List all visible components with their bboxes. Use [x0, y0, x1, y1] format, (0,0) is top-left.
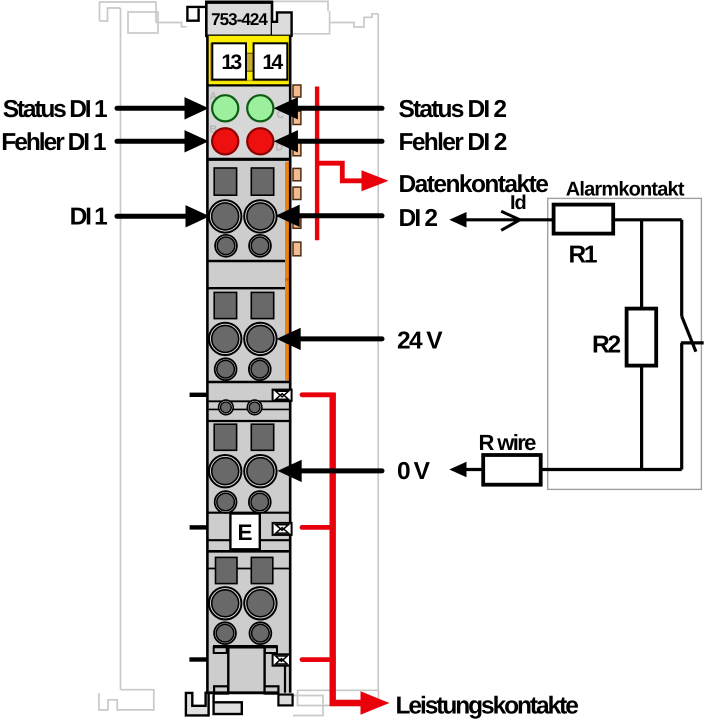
- ghost right module edge: [377, 14, 379, 691]
- terminal group 2 (24V): [209, 292, 277, 380]
- arrow Status DI 2: [298, 106, 382, 111]
- svg-text:Fehler DI 1: Fehler DI 1: [1, 129, 106, 156]
- module top-left hook: [187, 7, 206, 21]
- ghost right foot big box: [298, 690, 379, 705]
- foot central strip: [214, 702, 242, 714]
- red branch to Datenkontakte arrow: [315, 163, 363, 181]
- wire DI2 to R1: [464, 218, 554, 221]
- wire R1 to switch branch: [613, 218, 682, 221]
- foot right piece: [278, 695, 292, 706]
- svg-text:R1: R1: [569, 242, 597, 269]
- svg-text:Alarmkontakt: Alarmkontakt: [566, 179, 685, 201]
- switch blade: [682, 316, 696, 352]
- wire switch lower: [680, 343, 683, 470]
- bottom zone structure: [213, 646, 285, 693]
- svg-text:R2: R2: [592, 332, 620, 359]
- power jumper contact row 1: [273, 390, 292, 401]
- svg-text:753-424: 753-424: [211, 10, 268, 29]
- ghost top-left cap outline: [100, 2, 187, 27]
- wire switch upper: [680, 220, 683, 316]
- svg-text:DI 2: DI 2: [399, 205, 438, 232]
- svg-text:24 V: 24 V: [397, 328, 443, 355]
- svg-text:Status DI 1: Status DI 1: [3, 96, 107, 123]
- svg-text:0 V: 0 V: [397, 458, 431, 485]
- jumper dash row 2: [190, 525, 208, 529]
- power jumper contact row 2: [273, 523, 292, 535]
- module bottom edge: [205, 691, 278, 694]
- LED section background: [207, 87, 291, 160]
- arrow DI 1: [117, 214, 186, 219]
- foot central strip left edge: [212, 695, 214, 703]
- terminal group 4: [209, 557, 277, 644]
- separator contact circles: [219, 400, 262, 415]
- power jumper contact row 3: [273, 654, 290, 665]
- arrow 24 V: [301, 336, 383, 341]
- ghost left foot: [99, 690, 154, 710]
- switch lower contact tick: [681, 341, 704, 344]
- arrow Fehler DI 1: [117, 139, 185, 144]
- svg-text:13: 13: [221, 51, 241, 74]
- svg-text:R wire: R wire: [479, 430, 537, 455]
- LED fehler DI1 (red): [212, 128, 238, 154]
- LED fehler DI2 (red): [247, 128, 273, 154]
- current direction arrow Id: [501, 211, 520, 230]
- arrow 0 V: [302, 468, 383, 473]
- arrowhead toward 0 V: [449, 462, 466, 478]
- red branch row 3: [302, 657, 333, 662]
- red arrowhead Datenkontakte: [362, 170, 389, 191]
- svg-text:14: 14: [262, 51, 283, 74]
- resistor R wire: [483, 455, 541, 485]
- section divider lines: [207, 159, 291, 568]
- svg-text:E: E: [237, 520, 252, 545]
- jumper dash row 3: [189, 657, 207, 661]
- svg-text:DI 1: DI 1: [70, 203, 107, 230]
- svg-text:Fehler DI 2: Fehler DI 2: [399, 129, 507, 156]
- ghost right foot lower box: [293, 696, 323, 716]
- bottom wire: [541, 468, 682, 471]
- yellow connector block: [207, 36, 291, 86]
- wire R2 to bottom: [640, 366, 643, 470]
- central tab: [228, 647, 264, 693]
- arrow DI 2: [300, 213, 383, 218]
- svg-text:Leistungskontakte: Leistungskontakte: [396, 693, 579, 720]
- terminal group 3 (0V): [209, 424, 277, 513]
- jumper dash row 1: [190, 393, 208, 397]
- svg-text:Id: Id: [510, 192, 526, 214]
- orange strip segment seam: [285, 278, 290, 280]
- circuit border box: [548, 198, 702, 489]
- LED status DI1 (green): [212, 95, 238, 121]
- arrow Fehler DI 2: [298, 139, 382, 144]
- wire node to R2: [640, 220, 643, 309]
- red vertical line beside data contacts: [315, 87, 319, 241]
- resistor R2: [627, 309, 657, 366]
- foot left U piece: [186, 693, 209, 716]
- red branch row 2: [302, 525, 333, 530]
- module left edge: [206, 36, 209, 693]
- arrow Status DI 1: [117, 106, 185, 111]
- svg-text:Status DI 2: Status DI 2: [399, 96, 507, 123]
- red branch row 1: [302, 392, 333, 397]
- terminal group 1 (DI): [209, 168, 277, 257]
- module body background: [207, 158, 291, 693]
- wire R wire to 0V: [466, 468, 483, 471]
- olive centre contact: [245, 53, 254, 71]
- arrowhead toward DI 2: [449, 212, 466, 228]
- ghost top-right cap outline: [272, 1, 378, 33]
- module top cap: [205, 2, 292, 36]
- module right edge: [289, 36, 292, 693]
- resistor R1: [554, 205, 614, 234]
- terminal box 14: [254, 43, 288, 79]
- orange side strip: [285, 162, 290, 381]
- red arrowhead Leistungskontakte: [361, 691, 390, 714]
- orange data contact tabs: [293, 85, 301, 256]
- red bracket vertical (Leistungskontakte): [333, 393, 363, 704]
- terminal box 13: [212, 43, 246, 79]
- LED status DI2 (green): [247, 95, 273, 121]
- E marking box: [230, 514, 259, 550]
- ghost left module edge: [120, 8, 122, 690]
- ghost top-left label box: [128, 12, 158, 33]
